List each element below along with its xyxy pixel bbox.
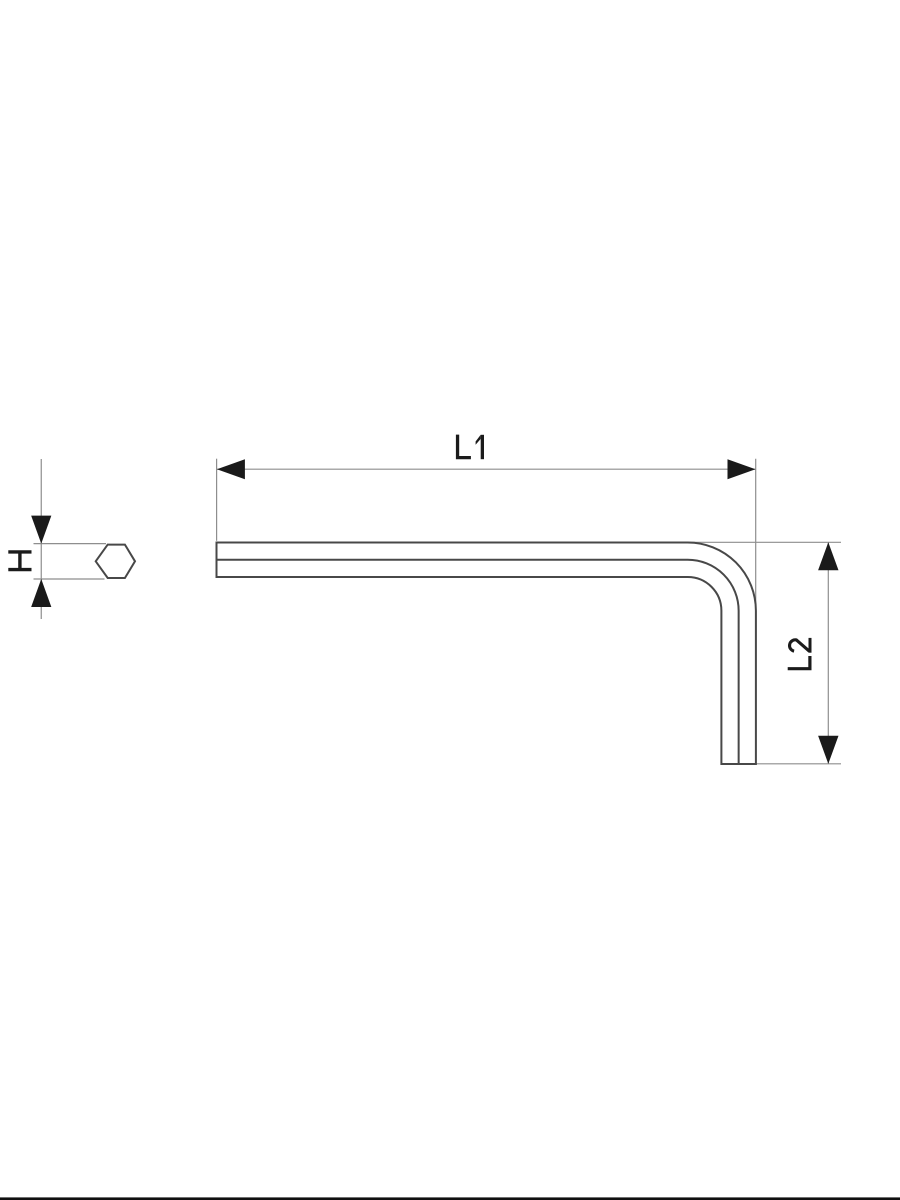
- label L1: [456, 435, 484, 460]
- label H: [8, 550, 31, 571]
- arrow L1 right: [728, 459, 756, 479]
- dimension line H (vertical): [40, 459, 42, 619]
- dimension line L1 (horizontal): [217, 468, 756, 470]
- bottom border line: [0, 1197, 900, 1200]
- arrow L1 left: [217, 459, 245, 479]
- extension line L2 bottom: [756, 763, 841, 765]
- arrow H up: [31, 579, 51, 607]
- hex key body outline: [217, 543, 756, 765]
- dimension line L2 (vertical): [827, 542, 829, 764]
- arrow L2 down: [818, 736, 838, 764]
- extension line L2 top: [688, 541, 841, 543]
- hexagon cross-section: [96, 545, 135, 578]
- arrow H down: [31, 516, 51, 544]
- extension line H bottom: [34, 578, 105, 580]
- hex key middle contour line: [217, 560, 739, 763]
- extension line L1 left: [216, 459, 218, 541]
- extension line H top: [34, 543, 107, 545]
- label L2: [788, 638, 812, 670]
- extension line L1 right: [755, 459, 757, 610]
- arrow L2 up: [818, 542, 838, 570]
